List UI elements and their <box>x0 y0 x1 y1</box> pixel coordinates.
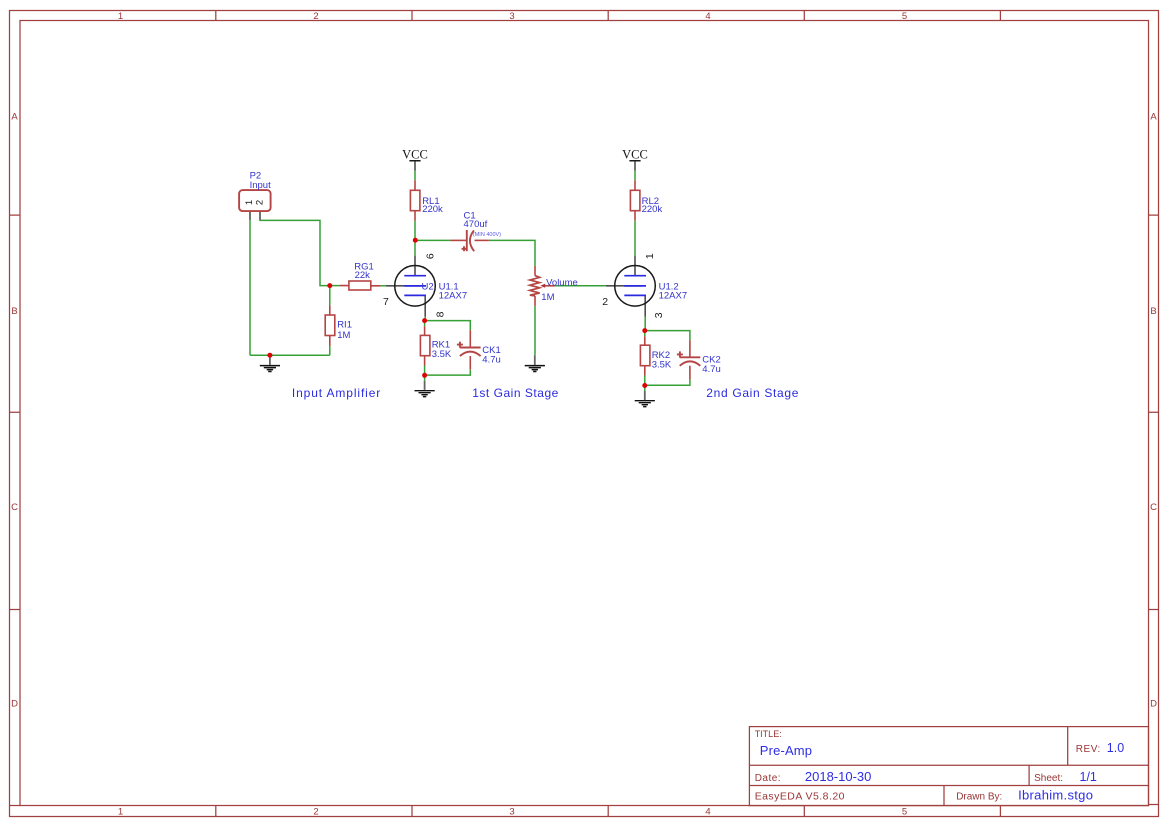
svg-text:22k: 22k <box>355 270 371 281</box>
svg-text:2: 2 <box>602 296 608 308</box>
svg-text:1: 1 <box>118 11 123 22</box>
svg-text:Drawn By:: Drawn By: <box>956 792 1002 803</box>
svg-text:1M: 1M <box>337 330 350 341</box>
svg-text:Date:: Date: <box>755 773 781 784</box>
svg-text:6: 6 <box>424 253 436 259</box>
svg-text:1/1: 1/1 <box>1080 770 1097 784</box>
svg-text:1M: 1M <box>541 292 554 303</box>
svg-text:3.5K: 3.5K <box>652 360 672 371</box>
svg-text:2nd Gain Stage: 2nd Gain Stage <box>706 386 799 400</box>
svg-text:12AX7: 12AX7 <box>439 290 468 301</box>
svg-text:B: B <box>11 306 17 317</box>
svg-text:Pre-Amp: Pre-Amp <box>760 743 812 758</box>
svg-text:VCC: VCC <box>402 147 428 161</box>
svg-text:TITLE:: TITLE: <box>755 729 782 739</box>
svg-text:8: 8 <box>435 311 447 317</box>
svg-text:3: 3 <box>509 11 514 22</box>
svg-text:A: A <box>1150 111 1157 122</box>
svg-text:2: 2 <box>313 807 318 818</box>
svg-text:D: D <box>11 699 18 710</box>
svg-text:220k: 220k <box>422 204 443 215</box>
svg-text:5: 5 <box>902 11 907 22</box>
svg-text:4.7u: 4.7u <box>702 364 721 375</box>
svg-text:Input: Input <box>250 180 271 191</box>
svg-text:3.5K: 3.5K <box>432 349 452 360</box>
svg-text:Input Amplifier: Input Amplifier <box>292 386 381 400</box>
svg-text:12AX7: 12AX7 <box>659 290 688 301</box>
svg-text:5: 5 <box>902 807 907 818</box>
svg-text:2: 2 <box>313 11 318 22</box>
svg-text:1st Gain Stage: 1st Gain Stage <box>472 386 559 400</box>
svg-text:1: 1 <box>118 807 123 818</box>
svg-text:220k: 220k <box>642 204 663 215</box>
svg-text:1: 1 <box>244 200 255 205</box>
svg-text:7: 7 <box>383 296 389 308</box>
svg-text:D: D <box>1150 699 1157 710</box>
svg-text:B: B <box>1150 306 1156 317</box>
svg-text:4: 4 <box>705 11 710 22</box>
svg-text:C: C <box>11 502 18 513</box>
svg-text:(MIN 400V): (MIN 400V) <box>473 232 501 238</box>
svg-text:4: 4 <box>705 807 710 818</box>
svg-text:A: A <box>11 111 18 122</box>
svg-text:C: C <box>1150 502 1157 513</box>
svg-text:VCC: VCC <box>622 147 648 161</box>
svg-text:REV:: REV: <box>1076 744 1101 755</box>
svg-text:Sheet:: Sheet: <box>1034 773 1063 784</box>
svg-text:3: 3 <box>653 312 665 318</box>
svg-text:1: 1 <box>644 253 656 259</box>
svg-text:3: 3 <box>509 807 514 818</box>
svg-text:U2: U2 <box>422 282 434 293</box>
svg-text:Ibrahim.stgo: Ibrahim.stgo <box>1018 788 1093 803</box>
svg-text:1.0: 1.0 <box>1107 741 1124 755</box>
svg-text:2018-10-30: 2018-10-30 <box>805 769 872 784</box>
svg-text:2: 2 <box>254 200 265 205</box>
svg-text:470uf: 470uf <box>464 219 488 230</box>
svg-text:EasyEDA V5.8.20: EasyEDA V5.8.20 <box>755 791 845 803</box>
svg-text:RI1: RI1 <box>337 319 352 330</box>
svg-text:Volume: Volume <box>546 277 578 288</box>
svg-text:4.7u: 4.7u <box>482 354 501 365</box>
